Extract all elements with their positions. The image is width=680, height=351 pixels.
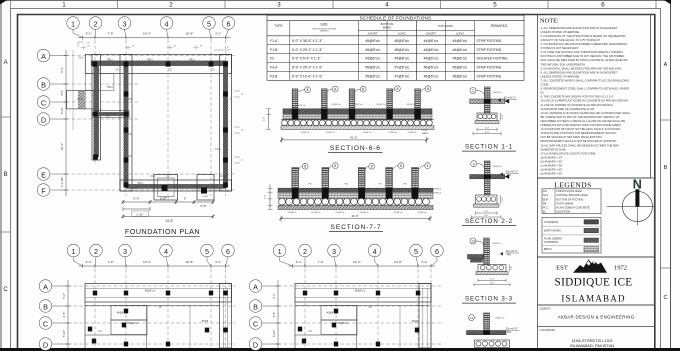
svg-text:F1-B: F1-B <box>77 98 83 101</box>
svg-text:NGL: NGL <box>543 194 549 197</box>
svg-text:3: 3 <box>332 247 336 256</box>
section 4-4 partial <box>469 315 475 321</box>
svg-text:#5@6: #5@6 <box>412 320 419 323</box>
svg-text:#5@8"c/c: #5@8"c/c <box>452 66 467 70</box>
svg-text:1: 1 <box>71 19 75 28</box>
svg-text:8: 8 <box>400 164 402 168</box>
svg-text:A: A <box>253 282 258 291</box>
svg-text:SHORT: SHORT <box>426 31 436 35</box>
svg-text:8: 8 <box>362 88 364 92</box>
svg-text:F3-A: F3-A <box>215 148 221 151</box>
svg-text:STRIP FOOTING: STRIP FOOTING <box>477 75 502 79</box>
svg-text:17.(A) DOWEL/SPLICE LENGTH FO: 17.(A) DOWEL/SPLICE LENGTH FOR STEEL <box>541 151 597 155</box>
svg-text:#5@8"c/c: #5@8"c/c <box>365 48 380 52</box>
svg-text:DIAMETER IN SLAB.: DIAMETER IN SLAB. <box>541 147 567 151</box>
svg-text:#5@8: #5@8 <box>117 312 124 315</box>
svg-text:SECTION-6-6: SECTION-6-6 <box>330 145 381 152</box>
foundation plan top dimension line <box>78 37 230 39</box>
svg-text:15'-1": 15'-1" <box>60 143 64 150</box>
svg-text:#5@6"c/c: #5@6"c/c <box>145 290 156 293</box>
svg-text:#5@8"c/c: #5@8"c/c <box>432 193 442 195</box>
SECTION 1-1 dims <box>477 129 497 131</box>
section 7-7 dimension line <box>281 218 430 220</box>
svg-text:(WIDTH X LENGTH X DEPTH): (WIDTH X LENGTH X DEPTH) <box>312 28 336 30</box>
svg-text:#5@8"c/c: #5@8"c/c <box>452 75 467 79</box>
bottom black crop bar <box>0 348 680 351</box>
svg-text:#5@8"c/c: #5@8"c/c <box>325 132 335 134</box>
svg-text:5'-8": 5'-8" <box>201 204 207 208</box>
svg-text:11.USE OF FORMES IN CONCRETE A: 11.USE OF FORMES IN CONCRETE AS PER MIX … <box>541 103 614 107</box>
svg-text:3: 3 <box>122 19 126 28</box>
schedule table grid <box>267 15 524 80</box>
svg-text:4. IN CASE THE NATURAL SOIL FO: 4. IN CASE THE NATURAL SOIL FORMATION DI… <box>541 50 624 54</box>
svg-text:5'-9": 5'-9" <box>134 197 140 201</box>
svg-text:#5@8"c/c: #5@8"c/c <box>300 132 310 134</box>
svg-text:16.ALL BAR SPLICES SHALL BE MI: 16.ALL BAR SPLICES SHALL BE MINIMUM 60 T… <box>541 143 619 147</box>
bottom plan grid dashed lines <box>94 269 96 348</box>
svg-text:BE COMPACTED TO 95% OF THE MAX: BE COMPACTED TO 95% OF THE MAXIMUM DRY D… <box>541 115 620 119</box>
svg-text:10'-8": 10'-8" <box>186 260 194 264</box>
svg-text:#4@6"c/c: #4@6"c/c <box>452 48 467 52</box>
svg-text:(c) #5 BARS = 38": (c) #5 BARS = 38" <box>541 164 563 168</box>
svg-text:3: 3 <box>123 247 127 256</box>
svg-text:15.RAFTS AND FOOTINGS TOP REIN: 15.RAFTS AND FOOTINGS TOP REINFORCEMENT … <box>541 131 617 135</box>
svg-text:41'-6": 41'-6" <box>351 214 358 218</box>
section 6-6 column bubbles <box>298 90 305 92</box>
svg-text:1'-6": 1'-6" <box>511 266 513 270</box>
svg-text:FINISH FLOOR LEVEL: FINISH FLOOR LEVEL <box>557 190 584 193</box>
svg-text:#8@6"c/c: #8@6"c/c <box>493 92 503 94</box>
brand mountain logo <box>573 260 607 273</box>
svg-text:E1: E1 <box>174 46 176 48</box>
svg-text:6: 6 <box>226 19 230 28</box>
svg-text:A: A <box>41 52 46 61</box>
SECTION 3-3 column <box>484 238 490 265</box>
svg-text:C: C <box>253 319 258 328</box>
svg-text:5'-2": 5'-2" <box>60 67 64 73</box>
svg-text:ISLAMABAD, PAKISTAN: ISLAMABAD, PAKISTAN <box>570 343 614 348</box>
svg-text:#6@5"c/c: #6@5"c/c <box>424 75 439 79</box>
svg-text:SIDDIQUE ICE: SIDDIQUE ICE <box>555 277 633 289</box>
svg-text:PB-1: PB-1 <box>189 59 195 62</box>
svg-text:FFL: FFL <box>543 190 548 193</box>
svg-text:A: A <box>4 60 8 66</box>
svg-text:REINFORCEMENT SHOULD NOT BE SP: REINFORCEMENT SHOULD NOT BE SPLICED AT S… <box>541 139 617 143</box>
svg-text:BARS: BARS <box>422 132 428 135</box>
plan top right mini dims <box>214 49 230 51</box>
svg-text:F3-A: F3-A <box>132 187 138 190</box>
svg-text:1'-6": 1'-6" <box>502 197 504 201</box>
section 6-6 plinth beam band <box>283 109 432 115</box>
SECTION 2-2 dims <box>476 212 498 214</box>
svg-text:UNLESS STATED OTHERWISE.: UNLESS STATED OTHERWISE. <box>541 30 581 34</box>
svg-text:TYPE: TYPE <box>274 24 283 28</box>
svg-text:#4@6"c/c: #4@6"c/c <box>495 318 505 320</box>
svg-text:1'-6": 1'-6" <box>502 114 504 118</box>
location cell <box>538 326 655 328</box>
svg-text:NOT BE SPLICED AT MID SPAN WHI: NOT BE SPLICED AT MID SPAN WHILE BOTTOM <box>541 135 603 139</box>
svg-text:#8@6"c/c: #8@6"c/c <box>493 166 503 168</box>
svg-text:PLINTH BEAM: PLINTH BEAM <box>557 202 574 205</box>
svg-text:#5@8"c/c: #5@8"c/c <box>417 212 427 214</box>
svg-text:BARS: BARS <box>383 26 391 30</box>
SECTION 3-3 footing <box>478 265 506 272</box>
svg-text:5'-0" X 36'-6" X 1'-3": 5'-0" X 36'-6" X 1'-3" <box>292 39 323 43</box>
svg-text:#5@6"c/c: #5@6"c/c <box>395 48 410 52</box>
svg-text:STRIP FOOTING: STRIP FOOTING <box>477 39 502 43</box>
section 6-6 pcc strip <box>281 126 434 130</box>
svg-text:4: 4 <box>164 19 168 28</box>
svg-text:#4@6"c/c: #4@6"c/c <box>424 57 439 61</box>
SECTION 2-2 bubble <box>471 161 477 167</box>
svg-text:2. FOUNDATION OF THE STRUCTURE: 2. FOUNDATION OF THE STRUCTURE IS BASED … <box>541 34 626 38</box>
isolated footing F2 <box>154 175 178 201</box>
svg-text:SECTION 3-3: SECTION 3-3 <box>465 296 513 303</box>
svg-text:5'-10": 5'-10" <box>272 330 276 337</box>
svg-text:#8@6"c/c: #8@6"c/c <box>376 104 386 106</box>
svg-text:10'-8": 10'-8" <box>186 32 194 36</box>
svg-text:FFL: FFL <box>507 331 512 334</box>
svg-text:#5@8"c/c: #5@8"c/c <box>407 132 417 134</box>
svg-text:PCC: PCC <box>543 207 548 210</box>
svg-text:10'-8": 10'-8" <box>394 260 402 264</box>
svg-text:#5@6"c/c: #5@6"c/c <box>355 290 366 293</box>
SECTION 1-1 plinth arm <box>470 99 505 104</box>
plan right side tick marks <box>234 90 240 92</box>
foundation plan grid dashed lines <box>94 40 96 165</box>
svg-text:THE NATURAL SOIL UNDERNEATH.: THE NATURAL SOIL UNDERNEATH. <box>541 62 586 66</box>
bottom plan interior walls <box>294 302 296 348</box>
section 6-6 footing cells band <box>283 114 432 119</box>
svg-text:CLIENT:: CLIENT: <box>540 306 551 310</box>
svg-text:5'-10": 5'-10" <box>60 107 64 114</box>
svg-text:#5@8"c/c: #5@8"c/c <box>311 212 321 214</box>
corner mark top-left <box>0 0 7 5</box>
foundation plan left dimension chain <box>65 50 67 196</box>
bottom plan grid dashed lines <box>304 269 306 348</box>
svg-text:F2: F2 <box>270 57 274 61</box>
svg-text:(a) #3 BARS = 23": (a) #3 BARS = 23" <box>541 155 563 159</box>
SECTION 1-1 footing <box>477 113 497 121</box>
svg-text:13.ALL MATERIALS ON WHICH SLAB: 13.ALL MATERIALS ON WHICH SLABS WILL BE … <box>541 111 632 115</box>
svg-text:5'-0": 5'-0" <box>490 283 495 285</box>
svg-text:5'-0": 5'-0" <box>484 215 489 217</box>
svg-text:10'-3": 10'-3" <box>143 32 151 36</box>
svg-text:#5@8"c/c: #5@8"c/c <box>432 189 442 191</box>
svg-text:C: C <box>3 287 8 293</box>
svg-text:7'-9": 7'-9" <box>107 260 113 264</box>
SECTION 3-3 bubble <box>470 238 476 244</box>
svg-text:3'-1": 3'-1" <box>215 32 221 36</box>
svg-text:5'-9" X 29'-3" X 1'-9": 5'-9" X 29'-3" X 1'-9" <box>292 66 323 70</box>
SECTION 2-2 column <box>484 161 490 195</box>
svg-text:SIZE: SIZE <box>320 23 328 27</box>
svg-text:SECTION-7-7: SECTION-7-7 <box>331 224 382 231</box>
svg-text:B: B <box>41 80 46 89</box>
svg-text:5'-2": 5'-2" <box>272 293 276 299</box>
svg-text:8. REINFORCEMENT STEEL SHALL C: 8. REINFORCEMENT STEEL SHALL CONFIRM TO … <box>541 87 630 91</box>
svg-text:F3-A: F3-A <box>270 66 278 70</box>
svg-text:LOCATION:: LOCATION: <box>540 328 556 332</box>
svg-text:14: 14 <box>470 316 474 320</box>
bottom plan right band <box>220 284 232 349</box>
svg-text:F1-A: F1-A <box>270 39 278 43</box>
bottom plan right band <box>419 284 431 349</box>
section 7-7 left dim ticks <box>269 184 271 209</box>
svg-text:3'-1": 3'-1" <box>421 260 427 264</box>
svg-text:4: 4 <box>385 1 389 8</box>
svg-text:6: 6 <box>226 247 230 256</box>
svg-text:#8@6"c/c: #8@6"c/c <box>406 104 416 106</box>
svg-text:4'-5": 4'-5" <box>272 312 276 318</box>
svg-text:#5@6"c/c: #5@6"c/c <box>365 75 380 79</box>
SECTION 1-1 column <box>484 87 490 113</box>
strip footing band bottom F3-B <box>120 180 232 191</box>
client cell <box>538 304 655 306</box>
svg-text:1972: 1972 <box>614 265 627 272</box>
svg-text:8: 8 <box>334 164 336 168</box>
svg-text:PB@6"c/c: PB@6"c/c <box>338 322 350 325</box>
svg-text:1'-8": 1'-8" <box>86 43 90 45</box>
svg-text:1: 1 <box>278 247 282 256</box>
svg-text:SHORT: SHORT <box>368 31 378 35</box>
svg-text:FEET/INCH: FEET/INCH <box>320 31 329 33</box>
svg-text:5'-9" X 5'-6" X 1'-3": 5'-9" X 5'-6" X 1'-3" <box>292 57 321 61</box>
svg-text:4: 4 <box>164 247 168 256</box>
SECTION 2-2 plinth arm <box>470 175 505 179</box>
bottom plan left dim chain <box>277 280 279 348</box>
sheet outer edge line right <box>670 0 672 348</box>
svg-text:4'-5": 4'-5" <box>60 90 64 96</box>
svg-text:7'-9": 7'-9" <box>107 32 113 36</box>
plan bottom dimension chains <box>123 201 213 203</box>
strip footing band top F1-A <box>85 55 231 74</box>
bottom plan interior walls <box>84 302 86 348</box>
sheet outer edge line top <box>0 0 671 2</box>
brand cell border <box>538 257 655 305</box>
svg-text:(d) #6 BARS = 45": (d) #6 BARS = 45" <box>541 168 563 172</box>
svg-text:#5@8"c/c: #5@8"c/c <box>335 212 345 214</box>
svg-text:5'-0": 5'-0" <box>485 132 490 134</box>
foundation plan grid bubbles 1-6 <box>67 17 80 30</box>
svg-text:24'-6": 24'-6" <box>165 219 173 223</box>
svg-text:B: B <box>4 172 8 178</box>
svg-text:3'-1": 3'-1" <box>296 260 302 264</box>
svg-text:SECTION 2-2: SECTION 2-2 <box>465 218 513 225</box>
svg-text:6: 6 <box>601 1 605 8</box>
section 7-7 rebar circle row <box>279 198 286 205</box>
plan column squares <box>93 61 98 66</box>
bottom plan grid bubbles <box>67 244 80 257</box>
svg-text:1. ALL DIMENSIONS AND ELEVATIO: 1. ALL DIMENSIONS AND ELEVATIONS ARE IN … <box>541 26 618 30</box>
legends hatch box <box>542 218 601 254</box>
svg-text:SOIL SHALL BE REPLACED BY MASS: SOIL SHALL BE REPLACED BY MASS CONCRETE,… <box>541 58 628 62</box>
svg-text:NATURAL GROUND LEVEL: NATURAL GROUND LEVEL <box>557 194 589 197</box>
SECTION 3-3 plinth arm <box>468 255 484 260</box>
svg-text:EL=+6'-0": EL=+6'-0" <box>504 96 516 100</box>
svg-text:3'-1": 3'-1" <box>215 260 221 264</box>
strip footing band right F3-A <box>220 55 232 192</box>
svg-text:#5@8: #5@8 <box>327 312 334 315</box>
bottom plan top dimension line <box>79 265 230 267</box>
svg-text:#8@6"c/c: #8@6"c/c <box>492 243 502 245</box>
svg-text:10.USE OF SUPERPLASTICIZER IN: 10.USE OF SUPERPLASTICIZER IN CONCRETE A… <box>541 99 629 103</box>
svg-text:#5@6"c/c: #5@6"c/c <box>395 39 410 43</box>
svg-text:PB-3: PB-3 <box>137 182 143 185</box>
section 6-6 column blocks in band <box>292 109 298 120</box>
svg-text:PB-1: PB-1 <box>147 59 153 62</box>
svg-text:8: 8 <box>427 87 429 91</box>
section 7-7 column blocks in band <box>292 188 299 199</box>
svg-text:PB-3: PB-3 <box>107 86 113 89</box>
svg-text:6'-2": 6'-2" <box>160 197 166 201</box>
svg-text:#8@6"c/c: #8@6"c/c <box>353 104 363 106</box>
svg-text:STRIP FOOTING: STRIP FOOTING <box>477 66 502 70</box>
svg-text:(b) #4 BARS = 30": (b) #4 BARS = 30" <box>541 159 563 163</box>
svg-text:STRIP FOOTING: STRIP FOOTING <box>477 48 502 52</box>
svg-text:#7@6"c/c: #7@6"c/c <box>395 75 410 79</box>
strip footing band grid3 <box>120 55 132 192</box>
svg-text:#4@6"c/c: #4@6"c/c <box>452 39 467 43</box>
svg-text:#6@5"c/c: #6@5"c/c <box>424 66 439 70</box>
svg-text:FFL: FFL <box>505 100 510 103</box>
svg-text:B: B <box>664 165 668 171</box>
svg-text:8: 8 <box>396 87 398 91</box>
svg-text:F1-B: F1-B <box>270 48 278 52</box>
left ruler ticks <box>1 116 11 118</box>
svg-text:(e) #8 BARS = 50": (e) #8 BARS = 50" <box>541 172 563 176</box>
svg-text:5: 5 <box>493 1 497 8</box>
section 7-7 lattice band <box>278 192 433 199</box>
svg-text:14.COVER FOR RFT MUST NOT BE L: 14.COVER FOR RFT MUST NOT BE LESS THAN 3… <box>541 127 622 131</box>
title block left edge lower <box>537 305 539 348</box>
svg-text:C: C <box>43 319 48 328</box>
svg-text:#8@6"c/c: #8@6"c/c <box>296 105 306 107</box>
corner mark top-right <box>664 0 671 5</box>
svg-text:FOUNDATION PLAN: FOUNDATION PLAN <box>125 227 200 236</box>
svg-text:6: 6 <box>435 247 439 256</box>
legends abbreviation box <box>542 189 601 214</box>
plan box below top band <box>85 74 114 91</box>
SECTION 2-2 footing <box>476 195 498 204</box>
svg-text:2: 2 <box>472 89 474 93</box>
svg-text:SCHEDULE OF FOUNDATIONS: SCHEDULE OF FOUNDATIONS <box>360 16 432 21</box>
svg-text:E1: E1 <box>200 46 202 48</box>
svg-text:BOTTOM OF FOOTING: BOTTOM OF FOOTING <box>557 198 584 201</box>
SECTION 3-3 dims <box>478 280 506 282</box>
svg-text:#5@8"c/c: #5@8"c/c <box>287 212 297 214</box>
foundation plan row bubbles A-F <box>37 49 50 62</box>
svg-text:9. THE CONCRETE MIX DESIGN FOR: 9. THE CONCRETE MIX DESIGN FOR FOOTING I… <box>541 95 614 99</box>
svg-text:5. NO BACKFILL SHALL BE EXECUT: 5. NO BACKFILL SHALL BE EXECUTED AROUND … <box>541 66 623 70</box>
svg-text:E: E <box>41 170 46 179</box>
svg-text:10'-3": 10'-3" <box>353 260 361 264</box>
svg-text:D: D <box>43 340 48 349</box>
svg-text:7. ALL CONCRETE WORKS SHALL CO: 7. ALL CONCRETE WORKS SHALL CONFIRM TO A… <box>541 78 630 82</box>
svg-text:LONG: LONG <box>456 31 465 35</box>
SECTION 1-1 bubble <box>470 88 476 94</box>
svg-text:SYSTEM IS NOT NECESSARY.: SYSTEM IS NOT NECESSARY. <box>541 46 580 50</box>
svg-text:CONCRETE: CONCRETE <box>544 221 558 224</box>
svg-text:C: C <box>663 295 667 301</box>
svg-text:ISLAMABAD: ISLAMABAD <box>561 294 625 304</box>
svg-text:#4@6"c/c: #4@6"c/c <box>424 39 439 43</box>
top ruler ticks <box>10 0 12 9</box>
svg-text:AKBAR DESIGN & ENGINEERING: AKBAR DESIGN & ENGINEERING <box>558 314 635 319</box>
svg-text:E1: E1 <box>88 46 90 48</box>
bottom plan top band <box>85 284 232 303</box>
svg-text:5'-10": 5'-10" <box>62 330 66 337</box>
left wing box with stripe <box>67 90 94 109</box>
svg-text:#5@8"c/c: #5@8"c/c <box>388 132 398 134</box>
svg-text:PLAIN CEMENT: PLAIN CEMENT <box>544 237 563 240</box>
left wing beam PB-3 <box>92 111 129 118</box>
svg-text:5: 5 <box>207 19 211 28</box>
svg-text:4: 4 <box>373 247 377 256</box>
svg-text:EL=+6'-0": EL=+6'-0" <box>506 327 518 331</box>
svg-text:A: A <box>43 282 48 291</box>
svg-text:A: A <box>664 62 668 68</box>
svg-text:2'-0": 2'-0" <box>490 279 495 281</box>
svg-text:6'-3 1/2": 6'-3 1/2" <box>60 177 64 187</box>
svg-text:#5@6"c/c: #5@6"c/c <box>365 66 380 70</box>
bottom plan row bubbles <box>249 280 262 293</box>
strip footing band left F1-B <box>92 55 100 161</box>
section 7-7 plinth beam band <box>278 188 433 192</box>
svg-text:SECTION 1-1: SECTION 1-1 <box>465 144 513 151</box>
svg-text:#5@8"c/c: #5@8"c/c <box>393 212 403 214</box>
svg-text:PB: PB <box>543 202 547 205</box>
svg-text:#5@6: #5@6 <box>202 320 209 323</box>
svg-text:REMARKS: REMARKS <box>491 24 508 28</box>
legends cell border <box>538 178 655 257</box>
svg-text:FFL: FFL <box>507 254 512 257</box>
svg-text:TOP BARS: TOP BARS <box>438 24 453 28</box>
svg-text:2-#4: 2-#4 <box>423 130 428 132</box>
svg-text:BOF: BOF <box>543 198 549 201</box>
svg-text:1: 1 <box>62 1 66 8</box>
bottom plan column squares <box>93 291 97 296</box>
svg-text:3'-1": 3'-1" <box>86 260 92 264</box>
svg-text:DESCRIBED IN ITEM D-2 ABOVE.AL: DESCRIBED IN ITEM D-2 ABOVE.ALL SLABS ON… <box>541 119 626 123</box>
section 6-6 left dim ticks <box>268 109 270 130</box>
svg-text:EL=+6'-0": EL=+6'-0" <box>506 170 518 174</box>
svg-text:#7@6"c/c: #7@6"c/c <box>395 66 410 70</box>
svg-text:2: 2 <box>94 247 98 256</box>
bottom plan grid bubbles <box>273 244 286 257</box>
svg-text:CONCRETE: CONCRETE <box>544 241 558 244</box>
svg-text:ISOLATED FOOTING: ISOLATED FOOTING <box>477 57 508 61</box>
section 7-7 bottom strip <box>278 206 433 210</box>
svg-text:4'-5": 4'-5" <box>62 312 66 318</box>
svg-text:8: 8 <box>371 165 373 169</box>
svg-text:LEGENDS: LEGENDS <box>554 180 591 189</box>
svg-text:#4@6"c/c: #4@6"c/c <box>452 57 467 61</box>
svg-text:3'-1": 3'-1" <box>86 32 92 36</box>
svg-text:EST: EST <box>556 265 568 272</box>
note box border <box>538 15 651 179</box>
sheet outer edge line left <box>0 0 2 348</box>
svg-text:B: B <box>253 302 258 311</box>
svg-text:10'-3": 10'-3" <box>143 260 151 264</box>
svg-text:CODE.: CODE. <box>541 83 550 87</box>
svg-text:2: 2 <box>303 247 307 256</box>
svg-text:1'-11": 1'-11" <box>136 212 143 216</box>
svg-text:#5@8"c/c: #5@8"c/c <box>362 132 372 134</box>
svg-text:F1-A: F1-A <box>203 195 208 198</box>
bottom plan left dim chain <box>67 280 69 348</box>
svg-text:8: 8 <box>334 88 336 92</box>
